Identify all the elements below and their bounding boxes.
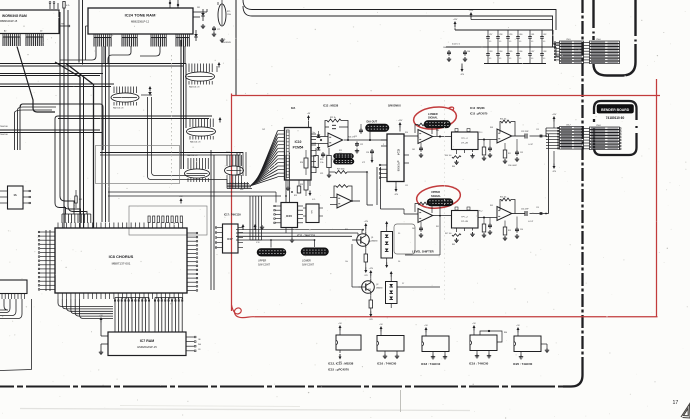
wire top trunk B <box>243 6 553 47</box>
op-amp F <box>497 207 512 221</box>
IC7 upper comb 1 <box>115 297 149 299</box>
cap C41 <box>420 146 422 148</box>
wire vertical x236 <box>235 0 237 96</box>
svg-text:C41: C41 <box>412 149 415 151</box>
svg-text:MB8264ASP-15: MB8264ASP-15 <box>0 20 18 23</box>
bus h y84 <box>0 83 114 85</box>
scan fold dotted <box>171 55 173 185</box>
svg-text:0.1: 0.1 <box>531 58 533 60</box>
UPPER S/W CONT pill <box>257 249 286 257</box>
wire opA out <box>344 139 387 141</box>
resistor array RA7 <box>225 166 244 175</box>
svg-text:R75: R75 <box>227 11 230 13</box>
svg-text:PJ-1: PJ-1 <box>479 132 483 134</box>
svg-text:R60: R60 <box>504 332 507 334</box>
svg-text:CHORUS: CHORUS <box>222 42 231 44</box>
svg-text:R22: R22 <box>339 150 342 152</box>
svg-text:Vcc: Vcc <box>313 132 316 134</box>
IC8 right pins <box>187 232 196 234</box>
svg-text:IC12 : M5238: IC12 : M5238 <box>323 105 339 108</box>
bender board plate outline <box>594 101 637 155</box>
svg-text:+12V: +12V <box>469 10 474 12</box>
+12V arrow cap <box>454 23 456 27</box>
svg-text:74HC00: 74HC00 <box>0 134 8 136</box>
IC8 top components <box>148 216 150 223</box>
IC10 left pins <box>278 130 285 132</box>
svg-text:HM6264ASP-15: HM6264ASP-15 <box>137 345 157 349</box>
resistor array RA11 <box>218 4 226 26</box>
svg-text:R50 15k: R50 15k <box>500 119 506 121</box>
svg-text:C53: C53 <box>520 152 523 154</box>
svg-text:S/H: S/H <box>310 210 312 214</box>
svg-text:RA4 10k x 8: RA4 10k x 8 <box>189 86 199 89</box>
IC19 package <box>470 335 497 351</box>
wire TPL1-opE <box>478 139 497 141</box>
svg-text:D6: D6 <box>398 261 400 263</box>
bus h y63 <box>0 63 186 65</box>
svg-text:C68: C68 <box>543 51 546 53</box>
trunk v x181 <box>180 40 182 169</box>
board divider corner <box>563 368 583 387</box>
wire opB out <box>352 200 360 202</box>
IC12/13 package <box>336 335 361 350</box>
svg-text:UPPER: UPPER <box>258 260 267 263</box>
tone-ram pin comb 2 <box>121 34 123 38</box>
IC10 PCM54 <box>285 128 312 181</box>
IC8 bottom pins <box>57 293 59 299</box>
capacitor C23 <box>360 128 362 130</box>
svg-text:R32: R32 <box>368 241 371 243</box>
svg-text:0.1: 0.1 <box>543 58 545 60</box>
IC14 +12V <box>399 124 401 128</box>
resistor R31 <box>75 196 77 203</box>
+12V arrow cn <box>553 118 555 122</box>
svg-text:R46 100: R46 100 <box>445 155 451 157</box>
svg-text:0.1: 0.1 <box>499 58 501 60</box>
wire top trunk A <box>243 0 556 30</box>
svg-text:0.1: 0.1 <box>499 41 501 43</box>
tone-ram pin comb 1 <box>93 34 95 38</box>
-12V arrow cn <box>553 164 555 168</box>
resistor array RA5 <box>187 127 216 136</box>
IC8 left pin comb <box>40 231 55 233</box>
svg-text:0.1: 0.1 <box>543 41 545 43</box>
wire opE out <box>512 135 525 137</box>
thin box A <box>95 145 180 184</box>
red squiggle <box>232 305 256 318</box>
svg-text:TP L-2: TP L-2 <box>461 138 468 140</box>
S/H pill label <box>334 154 354 159</box>
connector CN5 pin stubs <box>556 42 560 44</box>
wire opC out <box>433 136 452 138</box>
opE stubs <box>504 143 506 150</box>
svg-text:2YL-2B: 2YL-2B <box>461 221 468 223</box>
svg-text:IC16 : 74HC00: IC16 : 74HC00 <box>377 362 397 366</box>
svg-text:17: 17 <box>673 400 679 406</box>
connector CN8 right half <box>590 127 620 129</box>
svg-text:C52 220P: C52 220P <box>521 131 529 133</box>
svg-text:R45: R45 <box>452 244 455 246</box>
trunk diag 1 <box>55 62 80 228</box>
wire long down <box>31 299 33 370</box>
wire bundle below left <box>0 299 22 319</box>
svg-text:R47 100: R47 100 <box>445 233 451 235</box>
svg-text:R30: R30 <box>405 132 408 134</box>
wire cap rail bot <box>484 63 546 65</box>
IC7 RAM <box>108 332 186 356</box>
svg-text:C55: C55 <box>536 207 539 209</box>
IC10 right clutter <box>317 135 321 138</box>
trunk v x68 <box>67 10 69 200</box>
svg-text:C56: C56 <box>520 229 523 231</box>
svg-text:R41: R41 <box>436 226 439 228</box>
ground g2 <box>213 32 215 34</box>
svg-text:C62: C62 <box>543 34 546 36</box>
resistor R71 <box>63 2 65 9</box>
svg-text:10k: 10k <box>345 261 348 263</box>
op-amp B feedback <box>334 186 352 201</box>
wire verticals x79 <box>78 0 80 63</box>
svg-text:TP L-2: TP L-2 <box>461 217 468 219</box>
test point TPL-1 <box>452 132 479 150</box>
IC8 top pins <box>57 223 59 229</box>
svg-text:IC13 : M5238: IC13 : M5238 <box>470 107 485 110</box>
resistor R25 <box>314 156 319 168</box>
connector CN5 left half <box>560 41 584 43</box>
trunk v x60 <box>59 12 61 150</box>
S/H block <box>306 204 319 223</box>
wire to opD <box>403 209 405 214</box>
svg-text:LOWER: LOWER <box>428 112 438 116</box>
svg-text:100: 100 <box>339 153 342 155</box>
svg-text:R25: R25 <box>320 159 323 161</box>
diode D11 <box>193 16 200 18</box>
board divider horizontal <box>0 385 563 387</box>
svg-text:MB87137-001: MB87137-001 <box>112 262 131 266</box>
svg-text:IC8 CHORUS: IC8 CHORUS <box>109 254 134 259</box>
op-amp A <box>328 133 343 147</box>
red ellipse lower signal <box>412 105 457 132</box>
svg-text:C24: C24 <box>366 152 369 154</box>
thin rect A <box>96 146 180 184</box>
svg-text:MB62256LP-12: MB62256LP-12 <box>131 20 150 24</box>
svg-text:D/A: D/A <box>291 107 296 110</box>
resistor R26 <box>327 156 332 168</box>
svg-text:IC17 : 74HC139: IC17 : 74HC139 <box>224 214 241 217</box>
left cut IC22 <box>0 280 27 294</box>
svg-text:VR1: VR1 <box>320 173 323 175</box>
corner pencil mark <box>681 404 690 418</box>
test point TPL-2 <box>452 211 479 229</box>
bus h y116 <box>58 115 212 117</box>
IC7 upper comb 2 <box>155 297 182 299</box>
red ellipse upper signal <box>415 183 461 210</box>
level shifter block 1 <box>381 232 393 259</box>
svg-text:C25: C25 <box>354 136 357 138</box>
svg-text:D0: D0 <box>40 31 42 33</box>
IC15 bottom <box>285 228 287 234</box>
trunk drop c4 <box>140 46 160 56</box>
diode D8 <box>141 94 148 96</box>
svg-text:0.1: 0.1 <box>519 58 521 60</box>
svg-text:R52 15k: R52 15k <box>500 197 506 199</box>
svg-text:C61: C61 <box>531 34 534 36</box>
svg-text:R51: R51 <box>508 153 511 155</box>
+12V arrow t1 <box>470 14 472 18</box>
svg-text:BENDER BOARD: BENDER BOARD <box>601 108 630 112</box>
svg-text:R24: R24 <box>300 162 303 164</box>
svg-text:IC20 : 74HC00: IC20 : 74HC00 <box>513 362 533 366</box>
bus h y75 <box>0 73 103 75</box>
svg-text:C54 0.0047: C54 0.0047 <box>508 165 517 167</box>
svg-text:R23: R23 <box>300 184 303 186</box>
cap C24 <box>371 149 373 151</box>
capacitor row C57-C62 <box>487 30 489 37</box>
scan shadow bottom <box>20 409 470 411</box>
ground IC7 <box>101 343 108 345</box>
wire opD out <box>433 215 452 217</box>
svg-text:IC7 RAM: IC7 RAM <box>140 339 154 343</box>
wire out bus up <box>545 128 547 136</box>
TPL-1 bottom parts <box>452 156 461 159</box>
svg-text:0.1: 0.1 <box>531 41 533 43</box>
svg-text:C66: C66 <box>519 51 522 53</box>
ctrl bus wires <box>236 232 358 234</box>
svg-text:C22: C22 <box>360 144 363 146</box>
capacitor row C63-C68 <box>487 47 489 54</box>
op-amp B <box>337 194 352 208</box>
svg-text:PCM54: PCM54 <box>293 146 304 150</box>
svg-text:U-OUT: U-OUT <box>528 221 533 223</box>
bus h y104 <box>23 104 103 150</box>
fan feed comb <box>226 182 228 189</box>
wire knot above IC8 <box>55 150 87 214</box>
svg-text:4.7k: 4.7k <box>66 5 69 7</box>
IC15 left pins <box>276 205 282 207</box>
svg-text:0.1: 0.1 <box>509 58 511 60</box>
svg-text:R31: R31 <box>79 199 82 201</box>
tone-ram pin comb 4 <box>175 34 177 38</box>
svg-text:RA7: RA7 <box>226 151 230 154</box>
svg-text:2YL-2B: 2YL-2B <box>461 143 468 145</box>
IC14 right pins <box>404 135 413 137</box>
trunk drop c3 <box>108 46 131 64</box>
svg-text:UPPER: UPPER <box>431 190 440 194</box>
cap C42 <box>420 222 422 226</box>
wire cap rail top <box>455 29 553 31</box>
svg-text:μPC4066: μPC4066 <box>397 161 400 172</box>
bus h y130 <box>0 129 100 131</box>
svg-text:RA5 10k x 8: RA5 10k x 8 <box>190 141 200 144</box>
ctrl bus stubs <box>270 240 272 248</box>
IC20 package <box>514 336 541 352</box>
bus h y152 <box>100 152 243 154</box>
wire w-rt1 <box>193 11 207 13</box>
IC10 right pins <box>311 133 316 135</box>
svg-text:C71: C71 <box>217 29 220 31</box>
svg-text:Q1: Q1 <box>371 237 373 239</box>
svg-text:R21 3k: R21 3k <box>330 117 336 119</box>
svg-text:D/A OUT: D/A OUT <box>367 120 378 124</box>
svg-text:IC12, IC13 : M5238: IC12, IC13 : M5238 <box>328 362 354 366</box>
IC8 CHORUS <box>55 228 187 293</box>
wire IC8-IC7 bundle <box>58 299 113 307</box>
connector CN6 right half <box>590 41 620 43</box>
svg-text:IC16: IC16 <box>256 242 260 244</box>
working-ram bottom pin comb B <box>25 34 27 38</box>
trunk v x83 <box>83 77 85 228</box>
svg-text:SIGNAL: SIGNAL <box>431 194 441 198</box>
svg-text:RA8: RA8 <box>240 188 243 191</box>
svg-text:C57: C57 <box>489 34 492 36</box>
svg-text:0.1: 0.1 <box>519 41 521 43</box>
wire v x102 bundle <box>101 47 103 223</box>
svg-text:D11: D11 <box>197 7 200 9</box>
capacitor C22 <box>356 142 358 144</box>
svg-text:Q2: Q2 <box>376 284 378 286</box>
svg-text:S/W DMUX: S/W DMUX <box>388 105 401 108</box>
svg-text:RA2 10k x 8: RA2 10k x 8 <box>113 107 123 110</box>
IC24 TONE RAM <box>88 8 193 34</box>
svg-text:74HC00: 74HC00 <box>0 126 8 128</box>
-12V arrow cap <box>461 67 463 71</box>
svg-text:0.1: 0.1 <box>489 41 491 43</box>
level shifter block 2 <box>386 282 398 304</box>
tone-ram pin comb 3 <box>150 34 152 38</box>
svg-text:0.1: 0.1 <box>489 58 491 60</box>
zener D12 <box>195 30 197 34</box>
resistor array RA6 <box>185 169 210 178</box>
svg-text:+12V: +12V <box>398 120 403 122</box>
trunk diag 0 <box>17 47 55 113</box>
op-amp D feedback <box>415 204 432 214</box>
bender board outline top <box>594 0 636 76</box>
thin rect C <box>394 224 415 254</box>
red box left edge <box>231 94 233 312</box>
transistor Q1 <box>357 234 370 247</box>
svg-text:SIGNAL: SIGNAL <box>428 116 438 120</box>
IC15 top wires <box>285 155 287 203</box>
svg-text:RA6 10k x 8: RA6 10k x 8 <box>187 154 197 157</box>
working-ram bottom pin comb A <box>2 34 4 38</box>
IC21 gate <box>8 186 24 209</box>
IC18 package <box>422 336 449 352</box>
svg-text:L-OUT: L-OUT <box>528 144 533 146</box>
capacitor C71 <box>213 26 215 28</box>
IC14 uPC4066 <box>387 134 404 182</box>
svg-text:C67: C67 <box>531 51 534 53</box>
svg-text:C59: C59 <box>509 34 512 36</box>
wire vert x377 <box>376 167 378 205</box>
IC14 left pins <box>381 164 387 166</box>
svg-text:WORKING RAM: WORKING RAM <box>2 14 27 18</box>
svg-text:2SA933: 2SA933 <box>371 240 377 243</box>
op-amp C <box>418 130 433 144</box>
svg-text:S/W CONT: S/W CONT <box>258 263 270 266</box>
svg-text:D5: D5 <box>398 233 400 235</box>
svg-text:IC19 : 74HC00: IC19 : 74HC00 <box>469 362 489 366</box>
svg-text:IC18 : 74HC10: IC18 : 74HC10 <box>421 362 441 366</box>
svg-text:C64: C64 <box>499 51 502 53</box>
svg-text:C65: C65 <box>509 51 512 53</box>
wire mid vertical <box>366 172 368 205</box>
svg-text:PJ-2: PJ-2 <box>479 211 483 213</box>
svg-text:IC14: IC14 <box>397 149 401 155</box>
scan fold line <box>400 390 402 412</box>
IC15 right pins <box>298 205 304 207</box>
trunk corners mid <box>15 104 57 150</box>
wire dac feed left <box>148 97 228 182</box>
transistor Q2 <box>362 281 375 294</box>
op-amp A feedback <box>325 121 348 141</box>
svg-text:LOWER: LOWER <box>302 260 311 263</box>
connector CN8 pin squares <box>620 128 621 129</box>
trunk diag 2 <box>66 64 94 229</box>
svg-text:R19: R19 <box>294 195 297 197</box>
svg-text:1.5k: 1.5k <box>320 162 323 164</box>
Q2 wires <box>370 275 372 279</box>
wire cap rail mid <box>446 46 556 48</box>
opF stubs <box>504 221 506 228</box>
working-ram top pins <box>49 3 51 9</box>
svg-text:1: 1 <box>382 127 383 129</box>
wire opF out <box>512 213 525 215</box>
IC17 74HC139 <box>223 224 239 253</box>
paper speckle <box>223 63 224 64</box>
Q1 wires <box>365 228 367 232</box>
op-amp F feedback <box>500 200 515 214</box>
wire TPL2-opF <box>478 217 497 219</box>
svg-text:1h: 1h <box>13 193 17 197</box>
IC14 -12V <box>395 187 397 191</box>
trunk drop c5 <box>184 46 186 64</box>
svg-text:C60: C60 <box>519 34 522 36</box>
wire cap-conn <box>552 30 554 44</box>
ground g3 <box>221 38 223 40</box>
capacitor C64 <box>448 50 450 52</box>
IC10 bus fan <box>250 177 278 186</box>
+5V arrow IC7 <box>100 319 102 323</box>
resistor R24 col <box>304 158 308 168</box>
svg-text:R29 100k: R29 100k <box>337 169 345 171</box>
svg-text:C55 220P: C55 220P <box>521 209 529 211</box>
connector CN7 left half <box>560 127 584 129</box>
IC16 package <box>377 336 404 352</box>
wire junction dots <box>369 139 371 141</box>
connector CN7 pin stubs <box>546 127 560 129</box>
svg-text:74180110 60: 74180110 60 <box>606 116 625 120</box>
working-ram right pin <box>59 25 68 27</box>
svg-text:4.7k: 4.7k <box>312 199 315 201</box>
wire v x211 <box>210 150 212 290</box>
IC23 WORKING RAM <box>0 10 59 34</box>
svg-text:R34: R34 <box>345 229 348 231</box>
svg-text:C58: C58 <box>499 34 502 36</box>
red box right edge <box>656 79 658 317</box>
svg-text:R48: R48 <box>490 127 493 129</box>
IC10 bottom stubs <box>287 180 289 186</box>
svg-text:+12V: +12V <box>453 19 458 21</box>
trunk drop c2 <box>103 46 105 64</box>
svg-text:120k: 120k <box>227 14 231 16</box>
bender board label <box>597 105 634 114</box>
svg-text:C31: C31 <box>405 185 408 187</box>
red box top edge <box>232 95 661 97</box>
svg-text:IC10: IC10 <box>295 140 302 144</box>
svg-text:R49: R49 <box>490 205 493 207</box>
svg-text:S/W CONT: S/W CONT <box>302 263 314 266</box>
IC7 right pins <box>186 336 194 338</box>
